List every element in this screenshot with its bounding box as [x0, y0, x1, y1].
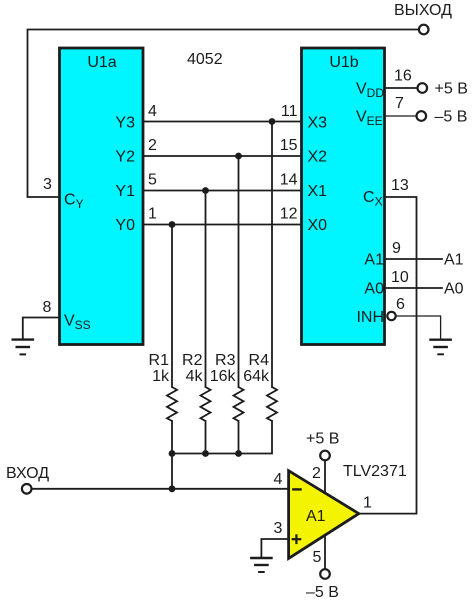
ground (VSS) — [12, 340, 35, 355]
svg-text:9: 9 — [392, 240, 401, 257]
node junction bus R2 — [202, 450, 209, 457]
svg-text:16: 16 — [394, 68, 412, 85]
terminal -5V (VEE) — [417, 111, 427, 121]
node junction bus R3 — [235, 450, 242, 457]
wire A0 pin to label — [385, 287, 443, 289]
ground (INH) — [429, 340, 452, 355]
wire INH to ground — [397, 316, 441, 339]
node junction X3/R4 — [269, 118, 276, 125]
wire VSS to ground — [23, 318, 60, 339]
svg-text:U1b: U1b — [329, 54, 358, 71]
svg-text:A1: A1 — [306, 508, 326, 525]
resistor R4 — [267, 387, 277, 421]
svg-text:Y1: Y1 — [115, 183, 135, 200]
svg-text:15: 15 — [280, 137, 298, 154]
op-amp U1 TLV2371 A1 — [289, 471, 359, 559]
wire R4 bottom lead — [172, 421, 272, 454]
svg-text:Y0: Y0 — [115, 217, 135, 234]
svg-text:A0: A0 — [364, 281, 384, 298]
wire Y1-X1 — [143, 190, 302, 192]
node junction X2/R3 — [235, 153, 242, 160]
svg-text:R3: R3 — [215, 352, 236, 369]
terminal op-amp -5V — [320, 569, 330, 579]
svg-text:4: 4 — [274, 471, 283, 488]
wire A1 pin to label — [385, 258, 443, 260]
svg-text:2: 2 — [312, 465, 321, 482]
svg-text:11: 11 — [281, 103, 298, 120]
svg-text:A1: A1 — [444, 252, 464, 269]
wire R3 bottom lead — [238, 421, 240, 454]
svg-text:ВХОД: ВХОД — [6, 465, 49, 482]
wire R1 column — [171, 225, 173, 388]
svg-text:4052: 4052 — [187, 51, 223, 68]
IC U1a (4052 half) — [60, 48, 144, 345]
terminal ВХОД — [22, 484, 32, 494]
ground (op-amp pin3) — [250, 558, 273, 572]
wire op-amp pin5 to -5V — [324, 536, 326, 569]
terminal +5V (VDD) — [418, 83, 428, 93]
node junction input line — [169, 485, 176, 492]
svg-text:X1: X1 — [308, 183, 328, 200]
terminal op-amp +5V — [320, 451, 330, 461]
svg-text:4: 4 — [148, 103, 157, 120]
svg-text:1k: 1k — [152, 368, 170, 385]
svg-text:5: 5 — [148, 172, 157, 189]
svg-text:4k: 4k — [186, 368, 204, 385]
wire Y0-X0 — [143, 224, 302, 226]
node junction Y1/R2 — [202, 187, 209, 194]
svg-text:ВЫХОД: ВЫХОД — [394, 2, 452, 19]
svg-text:R2: R2 — [182, 352, 203, 369]
svg-text:–5 В: –5 В — [435, 109, 468, 126]
wire VEE to -5V terminal — [385, 115, 417, 117]
svg-text:A1: A1 — [364, 252, 384, 269]
resistor R2 — [201, 387, 211, 421]
svg-text:+5 В: +5 В — [306, 431, 339, 448]
wire Y2-X2 — [143, 155, 302, 157]
node junction Y0/R1 — [169, 221, 176, 228]
wire R1 bottom lead — [171, 421, 173, 454]
resistor R1 — [167, 387, 177, 421]
svg-text:5: 5 — [313, 549, 322, 566]
wire output net: ВЫХОД terminal to CY pin — [28, 30, 419, 198]
svg-text:8: 8 — [43, 299, 52, 316]
svg-text:12: 12 — [280, 206, 298, 223]
svg-text:13: 13 — [391, 177, 409, 194]
svg-text:10: 10 — [391, 269, 409, 286]
wire R3 column — [238, 156, 240, 387]
wire op-amp pin2 to +5V — [324, 461, 326, 493]
terminal ВЫХОД — [419, 25, 429, 35]
svg-text:6: 6 — [396, 296, 405, 313]
node junction bus R1 — [169, 450, 176, 457]
svg-text:2: 2 — [148, 137, 157, 154]
svg-text:1: 1 — [363, 495, 372, 512]
svg-text:U1a: U1a — [87, 54, 116, 71]
wire R2 bottom lead — [205, 421, 207, 454]
pin bubble INH — [387, 312, 395, 320]
op-amp plus sign — [292, 534, 302, 544]
wire VDD to +5V terminal — [385, 87, 418, 89]
wire Y3-X3 — [143, 121, 302, 123]
svg-text:Y2: Y2 — [115, 149, 135, 166]
svg-text:3: 3 — [274, 520, 283, 537]
svg-text:64k: 64k — [243, 368, 270, 385]
svg-text:INH: INH — [356, 309, 384, 326]
svg-text:Y3: Y3 — [115, 115, 135, 132]
wire summing node down to input line — [171, 454, 173, 489]
svg-text:7: 7 — [395, 95, 404, 112]
svg-text:R4: R4 — [249, 352, 270, 369]
svg-text:14: 14 — [280, 172, 298, 189]
svg-text:X2: X2 — [308, 149, 328, 166]
wire input line ВХОД to op-amp — [32, 488, 289, 490]
resistor R3 — [234, 387, 244, 421]
svg-text:R1: R1 — [149, 352, 170, 369]
wire R2 column — [205, 191, 207, 388]
wire CX feedback to op-amp output — [359, 197, 417, 514]
svg-text:–5 В: –5 В — [306, 584, 339, 601]
svg-text:+5 В: +5 В — [435, 81, 468, 98]
svg-text:1: 1 — [148, 206, 157, 223]
svg-text:TLV2371: TLV2371 — [343, 463, 407, 480]
svg-text:X0: X0 — [308, 217, 328, 234]
wire R4 column — [271, 122, 273, 388]
svg-text:A0: A0 — [444, 281, 464, 298]
IC U1b (4052 half) — [302, 48, 385, 345]
svg-text:3: 3 — [43, 176, 52, 193]
svg-text:X3: X3 — [308, 115, 328, 132]
wire op-amp pin3 to ground — [261, 539, 288, 557]
op-amp minus sign — [292, 488, 302, 490]
svg-text:16k: 16k — [210, 368, 237, 385]
